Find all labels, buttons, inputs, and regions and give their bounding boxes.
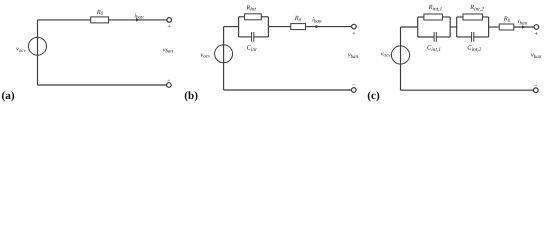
svg-text:(b): (b) [184,90,198,102]
svg-text:(c): (c) [367,90,380,102]
svg-text:(a): (a) [2,90,15,102]
